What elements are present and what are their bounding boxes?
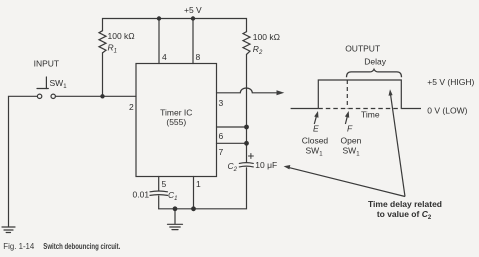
- node pin7: [244, 141, 249, 146]
- plus sign C2: [248, 154, 253, 159]
- svg-text:INPUT: INPUT: [34, 59, 60, 69]
- wire pin 1 down: [193, 177, 195, 209]
- arrow at E: [314, 115, 316, 124]
- IC box U1 555: [136, 64, 217, 177]
- wire ground stem center: [174, 209, 176, 224]
- ground symbol center: [168, 223, 183, 225]
- svg-text:Fig. 1-14: Fig. 1-14: [3, 242, 35, 251]
- svg-text:0.01: 0.01: [133, 190, 150, 200]
- waveform diagram: [284, 69, 421, 196]
- node pin6: [244, 125, 249, 130]
- svg-text:2: 2: [129, 102, 134, 112]
- svg-text:100 kΩ: 100 kΩ: [108, 31, 135, 41]
- wire pin 7 stub: [217, 142, 247, 144]
- wire input left leg to ground: [9, 96, 38, 226]
- node pin1-bottom: [191, 206, 196, 211]
- svg-text:F: F: [347, 124, 353, 134]
- svg-text:6: 6: [219, 131, 224, 141]
- svg-text:Time: Time: [361, 110, 380, 120]
- svg-text:+5 V: +5 V: [184, 5, 202, 15]
- wire waveform baseline left solid: [291, 108, 319, 110]
- wire switch to pin 2: [56, 95, 137, 97]
- junction dots: [100, 16, 249, 211]
- resistor R2: [243, 32, 250, 55]
- leader line to waveform: [390, 94, 405, 197]
- wire pin 5 to C1: [158, 177, 160, 192]
- svg-text:Timer IC: Timer IC: [160, 108, 192, 118]
- caption Fig 1-14: [3, 241, 120, 251]
- ground symbol left: [2, 226, 15, 228]
- wire dashed vertical at F: [346, 80, 348, 109]
- capacitor C2 plates: [239, 162, 253, 165]
- wire pulse outline: [318, 80, 401, 109]
- node ground-bottom: [173, 206, 178, 211]
- wire pin 4 from rail: [158, 19, 160, 64]
- wire pin 6 stub: [217, 126, 247, 128]
- svg-text:8: 8: [196, 52, 201, 62]
- switch SW1 actuator: [45, 77, 47, 89]
- node input-R1: [100, 94, 104, 98]
- svg-text:+5 V (HIGH): +5 V (HIGH): [427, 77, 474, 87]
- wire pin 8 from rail: [192, 19, 194, 64]
- svg-text:5: 5: [162, 179, 167, 189]
- wire C2 bottom to bottom rail: [159, 168, 247, 209]
- switch SW1 contacts: [37, 94, 41, 98]
- svg-text:10 μF: 10 μF: [255, 160, 277, 170]
- svg-text:100 kΩ: 100 kΩ: [253, 32, 280, 42]
- svg-text:7: 7: [219, 147, 224, 157]
- wire R1 bottom to input node: [102, 53, 104, 96]
- wire waveform baseline right solid: [401, 108, 421, 110]
- wire +5V power rail: [103, 19, 247, 32]
- wire waveform baseline dashed: [318, 108, 401, 110]
- node rail-pin8: [191, 16, 195, 20]
- svg-text:3: 3: [219, 98, 224, 108]
- svg-text:Switch debouncing circuit.: Switch debouncing circuit.: [43, 241, 120, 251]
- svg-text:OUTPUT: OUTPUT: [345, 44, 380, 54]
- resistor R1: [99, 31, 106, 53]
- node rail-pin4: [157, 16, 161, 20]
- svg-text:(555): (555): [166, 117, 186, 127]
- svg-text:Open: Open: [341, 136, 362, 146]
- wire R2 bottom down to C2: [246, 54, 248, 162]
- wire pin 3 output with hop: [217, 88, 280, 93]
- arrow at F: [345, 115, 347, 124]
- svg-text:1: 1: [196, 179, 201, 189]
- svg-text:0 V (LOW): 0 V (LOW): [427, 106, 467, 116]
- arrowhead output: [277, 90, 285, 95]
- svg-text:E: E: [313, 124, 319, 134]
- brace delay: [347, 69, 402, 77]
- svg-text:Delay: Delay: [364, 57, 386, 67]
- svg-text:Closed: Closed: [302, 136, 329, 146]
- svg-text:Time delay related: Time delay related: [368, 199, 442, 209]
- wire C1 bottom to bottom rail: [158, 196, 160, 209]
- leader line to 10uF: [289, 167, 406, 196]
- svg-text:4: 4: [162, 52, 167, 62]
- capacitor C1 plates: [150, 190, 168, 193]
